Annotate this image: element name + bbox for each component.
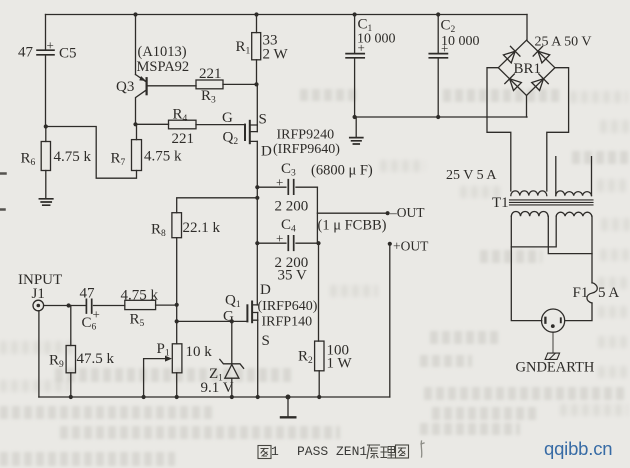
wire secondary parallel link upper [511, 216, 556, 247]
svg-text:BR1: BR1 [514, 61, 542, 77]
wire +OUT down to bottom rail [389, 244, 391, 397]
svg-text:+: + [441, 41, 448, 56]
capacitor C6 [80, 286, 125, 333]
wire top rail corner to bridge [526, 15, 528, 41]
wire Q1 gate [177, 320, 248, 322]
svg-text:R3: R3 [201, 88, 216, 106]
svg-text:4.75 k: 4.75 k [121, 288, 159, 304]
capacitor C5 [18, 38, 77, 62]
svg-text:Q2: Q2 [223, 130, 239, 148]
svg-text:2 W: 2 W [263, 47, 289, 63]
mains plug [542, 309, 565, 332]
wire J1 to C6 [44, 305, 86, 307]
wire top supply rail [46, 14, 528, 16]
svg-text:221: 221 [199, 66, 222, 82]
svg-text:R9: R9 [49, 353, 64, 371]
wire DC minus rail [355, 116, 527, 118]
node -OUT terminal [386, 205, 426, 220]
wire node to R7 bottom (zigzag) [46, 127, 137, 179]
svg-text:47.5 k: 47.5 k [77, 351, 115, 367]
wire secondary left to plug [511, 216, 541, 320]
wire bridge bottom to DC minus rail [526, 96, 528, 118]
svg-text:GNDEARTH: GNDEARTH [516, 360, 595, 376]
stray ink mark left of watermark [421, 441, 424, 457]
wire J1 ground drop [38, 311, 40, 397]
node P1 bottom [175, 395, 179, 399]
svg-text:IRFP140: IRFP140 [262, 315, 313, 330]
svg-text:5 A: 5 A [598, 285, 619, 301]
node R8 tap on main vertical [255, 196, 259, 200]
wire Q2 drain down main vertical [256, 141, 258, 305]
node C4 right / R2 top [316, 241, 320, 245]
wire fuse to plug [565, 303, 592, 321]
resistor R2 [298, 243, 352, 397]
svg-text:+: + [47, 38, 54, 53]
node C2 bottom [436, 115, 440, 119]
caption hanzi li (理) [381, 447, 395, 459]
svg-text:S: S [262, 333, 270, 349]
svg-text:47: 47 [80, 286, 96, 302]
caption hanzi yuan (原) [367, 445, 380, 459]
svg-text:T1: T1 [492, 195, 509, 211]
svg-text:–OUT: –OUT [389, 205, 425, 220]
connector J1 INPUT [18, 272, 62, 311]
ground below C1 [350, 117, 363, 144]
svg-text:4.75 k: 4.75 k [144, 149, 182, 165]
ground center tap [281, 395, 295, 418]
svg-text:+: + [276, 175, 283, 190]
node R9 top [67, 303, 71, 307]
wire bottom rail [39, 396, 390, 398]
svg-text:47: 47 [18, 45, 34, 61]
svg-text:MSPA92: MSPA92 [137, 59, 190, 75]
svg-text:R7: R7 [111, 151, 126, 169]
potentiometer P1 [144, 341, 213, 397]
resistor R1 [236, 12, 289, 84]
resistor R6 [21, 127, 92, 198]
svg-text:R2: R2 [298, 349, 313, 367]
svg-text:C5: C5 [59, 46, 77, 62]
node +OUT terminal [388, 239, 429, 254]
svg-text:+: + [276, 231, 283, 246]
wire C3 right down to C4 node [316, 187, 318, 243]
node R1/R3/Q2 source [254, 82, 258, 86]
mosfet Q2 IRFP9240 [222, 110, 340, 160]
wire node to R4 [136, 123, 169, 125]
bridge rectifier BR1 [498, 35, 591, 96]
svg-text:221: 221 [172, 131, 195, 147]
svg-text:+: + [358, 40, 365, 55]
node C1 bottom [353, 115, 357, 119]
capacitor C3 [257, 161, 373, 215]
svg-text:9.1 V: 9.1 V [201, 380, 234, 396]
svg-text:Q1: Q1 [225, 293, 241, 311]
svg-text:F1: F1 [573, 285, 589, 301]
svg-text:(1 μ FCBB): (1 μ FCBB) [318, 218, 387, 234]
wire C5 bottom to node [45, 55, 47, 127]
svg-text:J1: J1 [32, 286, 45, 302]
transistor Q3 (PNP MPSA92) [116, 44, 189, 124]
svg-text:1 W: 1 W [327, 356, 353, 372]
wire R3 to R1 node [223, 83, 257, 85]
node C3 left [255, 185, 259, 189]
wire bridge AC left to transformer [487, 68, 511, 191]
svg-text:22.1 k: 22.1 k [183, 220, 221, 236]
node C5/R6 junction [44, 124, 48, 128]
wire node down to Q2 [256, 84, 258, 125]
svg-text:P1: P1 [157, 341, 170, 359]
GHOSTS [300, 89, 358, 101]
svg-text:D: D [260, 282, 271, 298]
node Q1 gate tap [175, 319, 179, 323]
node C4 left [255, 241, 259, 245]
svg-text:R4: R4 [173, 107, 188, 125]
caption figure label [271, 444, 279, 459]
wire secondary right inner down [548, 216, 592, 253]
node Z1 top [230, 319, 234, 323]
svg-text:D: D [261, 144, 272, 160]
svg-text:C2: C2 [441, 18, 456, 36]
wire link to fuse [591, 254, 593, 283]
resistor R8 [151, 198, 257, 344]
wire left vertical to C5 [45, 15, 47, 50]
caption hanzi tu 2 (图) [396, 445, 409, 458]
resistor R7 [111, 124, 183, 170]
node R9 bottom [69, 395, 73, 399]
fuse F1 [573, 283, 620, 303]
svg-text:+: + [93, 307, 100, 322]
scan edge marks [0, 174, 6, 210]
svg-text:(IRFP640): (IRFP640) [258, 299, 318, 314]
svg-text:35 V: 35 V [278, 268, 307, 284]
node R5/R8 junction [175, 303, 179, 307]
node Z1 bottom [230, 395, 234, 399]
svg-text:(A1013): (A1013) [138, 44, 187, 60]
wire bridge AC right to transformer [547, 68, 569, 191]
node R2 bottom [317, 395, 321, 399]
node Q1 source bottom [256, 395, 260, 399]
resistor R3 [196, 66, 223, 106]
svg-text:R5: R5 [130, 312, 145, 330]
resistor R4 [169, 107, 197, 148]
svg-text:4.75 k: 4.75 k [54, 149, 92, 165]
wire R4 to Q2 gate [196, 124, 245, 126]
svg-text:G: G [223, 309, 234, 325]
svg-text:+OUT: +OUT [393, 239, 429, 254]
svg-text:2 200: 2 200 [275, 199, 309, 215]
caption hanzi tu (图) [258, 446, 271, 459]
svg-text:25 V 5 A: 25 V 5 A [446, 168, 497, 183]
wire Q3 emitter from top rail [135, 15, 137, 75]
svg-text:(6800 μ F): (6800 μ F) [311, 163, 373, 179]
svg-text:IRFP9240: IRFP9240 [277, 128, 335, 143]
wire -OUT branch [317, 212, 387, 214]
node top rail Q3 [133, 12, 137, 16]
node P1 wiper bottom [142, 395, 146, 399]
zener Z1 9.1V [201, 321, 244, 397]
svg-text:S: S [259, 112, 267, 128]
svg-text:R8: R8 [151, 222, 166, 240]
node Q3 collector / R4 / R7 [133, 122, 137, 126]
watermark qqibb.cn [544, 438, 612, 460]
svg-text:R1: R1 [236, 39, 251, 57]
svg-text:Q3: Q3 [116, 79, 134, 95]
wire Q3 base to R3 [148, 85, 196, 87]
svg-text:R6: R6 [21, 151, 36, 169]
resistor R5 [121, 288, 177, 330]
capacitor C4 [257, 217, 318, 284]
capacitor C1 [346, 12, 395, 117]
ground below R6 [39, 199, 52, 205]
earth symbol [545, 353, 560, 359]
svg-text:25 A 50 V: 25 A 50 V [535, 35, 592, 50]
wire Q1 source to rail [257, 320, 259, 397]
svg-text:10 k: 10 k [186, 344, 213, 360]
resistor R9 [49, 306, 115, 398]
transformer T1 [446, 157, 593, 217]
mosfet Q1 IRFP140 [223, 282, 318, 349]
earth lead below plug [552, 332, 554, 353]
svg-text:G: G [222, 110, 233, 126]
svg-text:(IRFP9640): (IRFP9640) [273, 142, 340, 157]
capacitor C2 [429, 12, 479, 117]
